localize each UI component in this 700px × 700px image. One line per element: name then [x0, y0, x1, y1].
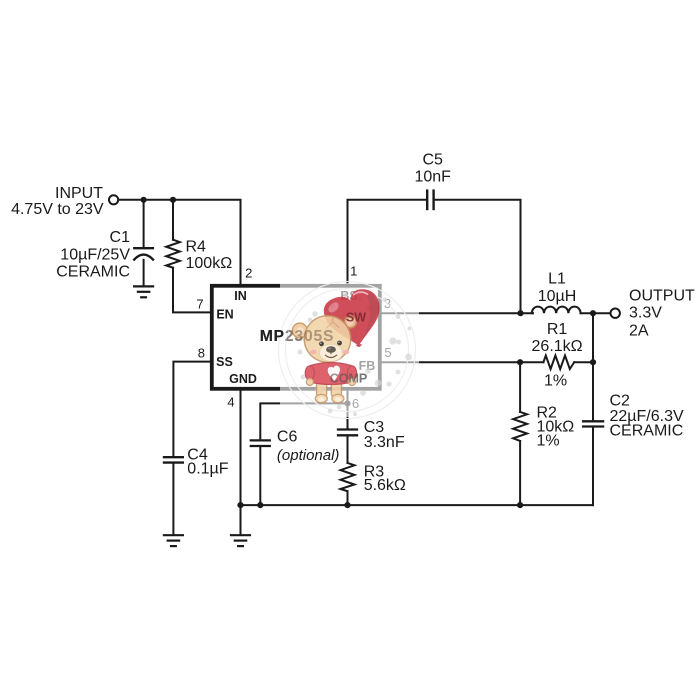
- svg-text:2305S: 2305S: [285, 328, 334, 345]
- junction C5-SW: [517, 310, 523, 316]
- wire C2 to rail: [592, 428, 594, 506]
- junction rail-C6: [257, 502, 263, 508]
- resistor R4: [166, 240, 180, 268]
- junction pin6-C6: [344, 400, 350, 406]
- wire C3 to R3: [347, 436, 349, 463]
- wire R4 to pin7: [173, 268, 210, 313]
- svg-text:10µF/25V: 10µF/25V: [60, 247, 130, 264]
- junction FB-R2: [517, 359, 523, 365]
- node input terminal: [109, 195, 118, 204]
- wire C6 top: [260, 403, 347, 439]
- wire R2 to rail: [519, 441, 521, 505]
- junction SW-C2: [590, 310, 596, 316]
- svg-text:100kΩ: 100kΩ: [186, 255, 233, 272]
- svg-text:0.1µF: 0.1µF: [187, 461, 228, 478]
- bear chest heart: [328, 366, 340, 381]
- node output terminal: [611, 309, 620, 318]
- capacitor C2: [583, 421, 603, 426]
- bear nose: [326, 346, 336, 353]
- svg-text:SS: SS: [216, 355, 233, 369]
- capacitor C5: [427, 191, 433, 209]
- wire C6 to rail: [259, 447, 261, 505]
- wire pin6 down: [347, 391, 349, 429]
- svg-text:2: 2: [245, 265, 252, 280]
- svg-text:2A: 2A: [629, 323, 649, 340]
- svg-text:(optional): (optional): [277, 447, 340, 464]
- wire R1 to C2 node: [574, 361, 593, 363]
- svg-text:10µH: 10µH: [538, 288, 577, 305]
- junction rail-R2: [517, 502, 523, 508]
- svg-text:COMP: COMP: [330, 372, 368, 386]
- svg-text:C1: C1: [110, 229, 131, 246]
- junction rail-R3: [344, 502, 350, 508]
- svg-text:R1: R1: [547, 321, 568, 338]
- bear blush: [310, 350, 317, 355]
- watermark dots: [297, 293, 412, 416]
- svg-text:26.1kΩ: 26.1kΩ: [532, 338, 583, 355]
- capacitor C3: [338, 430, 357, 436]
- wire bottom rail: [241, 504, 594, 506]
- svg-text:INPUT: INPUT: [55, 185, 103, 202]
- capacitor C6: [251, 440, 270, 446]
- inductor L1: [532, 307, 581, 314]
- bear right ear: [345, 316, 357, 328]
- wire pin4 down: [240, 391, 242, 535]
- watermark heart balloon: [321, 286, 387, 352]
- wire C1 branch top: [143, 200, 145, 247]
- svg-text:L1: L1: [548, 271, 566, 288]
- svg-text:3.3V: 3.3V: [629, 304, 662, 321]
- IC U1 MP2305S body: [212, 286, 380, 389]
- bear shirt: [309, 363, 353, 385]
- svg-text:MP: MP: [260, 328, 285, 345]
- wire R3 to rail: [347, 491, 349, 505]
- svg-text:GND: GND: [229, 372, 257, 386]
- watermark ring: [279, 282, 416, 419]
- svg-text:CERAMIC: CERAMIC: [56, 264, 130, 281]
- wire L1 to output: [581, 312, 611, 314]
- bear left ear: [292, 323, 307, 338]
- svg-text:C6: C6: [277, 429, 298, 446]
- svg-text:R4: R4: [186, 238, 207, 255]
- ground under pin4: [231, 535, 250, 546]
- bear legs: [317, 380, 327, 398]
- junction input-R4: [170, 197, 176, 203]
- bear paws: [306, 379, 313, 386]
- wire pin8 to C4: [173, 362, 210, 456]
- wire C5 to SW node: [435, 200, 521, 313]
- svg-text:OUTPUT: OUTPUT: [629, 287, 695, 304]
- svg-text:8: 8: [198, 346, 205, 361]
- ground under C4: [164, 535, 183, 546]
- wire R2 branch: [519, 362, 521, 412]
- svg-text:5.6kΩ: 5.6kΩ: [364, 477, 406, 494]
- resistor R3: [341, 463, 355, 491]
- wire R4 branch top: [172, 200, 174, 240]
- svg-text:1%: 1%: [537, 433, 560, 450]
- svg-text:7: 7: [196, 297, 203, 312]
- junction input-C1: [141, 197, 147, 203]
- svg-text:4: 4: [227, 395, 234, 410]
- wire FB line: [382, 361, 544, 363]
- capacitor C1: [134, 248, 153, 259]
- wire SW line: [382, 312, 533, 314]
- svg-text:C5: C5: [422, 152, 443, 169]
- watermark overlay: [280, 283, 419, 417]
- svg-text:1: 1: [350, 264, 357, 279]
- wire C4 to ground: [172, 464, 174, 535]
- ground under C1: [134, 286, 153, 297]
- junction R1-C2: [590, 359, 596, 365]
- wire C2 branch: [592, 313, 594, 420]
- wire pin1 to C5: [348, 200, 426, 284]
- resistor R2: [513, 412, 527, 441]
- bear muzzle: [320, 344, 343, 361]
- svg-text:EN: EN: [216, 308, 233, 322]
- svg-text:SW: SW: [346, 311, 366, 325]
- junction rail-pin4: [237, 502, 243, 508]
- bear forehead seam: [326, 317, 340, 329]
- svg-text:1%: 1%: [544, 373, 567, 390]
- svg-text:IN: IN: [234, 289, 247, 303]
- svg-text:CERAMIC: CERAMIC: [610, 422, 684, 439]
- bear eyes: [319, 341, 324, 346]
- bear feet: [315, 394, 327, 403]
- svg-text:4.75V to 23V: 4.75V to 23V: [11, 201, 104, 218]
- wire C1 to ground: [143, 260, 145, 286]
- bear head: [304, 316, 350, 362]
- bear sleeves: [305, 366, 314, 380]
- svg-text:3.3nF: 3.3nF: [364, 434, 405, 451]
- wire input rail: [119, 200, 241, 284]
- svg-text:10nF: 10nF: [414, 169, 451, 186]
- watermark bear: [292, 316, 356, 403]
- bear mouth: [325, 352, 337, 357]
- capacitor C4: [164, 457, 183, 462]
- resistor R1: [543, 356, 574, 370]
